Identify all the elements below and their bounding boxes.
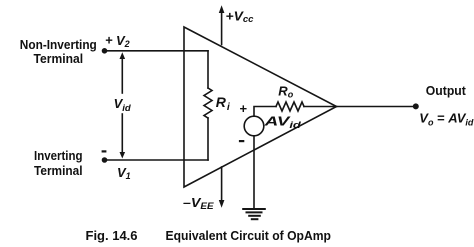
wire R_i bottom lead [207,118,209,160]
resistor Ro [276,102,304,111]
wire -Vee lead [221,167,223,200]
arrowhead Vid up [120,52,126,59]
svg-text:+: + [105,32,113,47]
resistor Ri [204,88,212,118]
node output [413,103,419,109]
arrowhead Vid down [120,152,126,159]
dependent source AVid circle [244,116,264,136]
wire source bottom to ground [253,136,255,209]
wire R_i top lead [207,51,209,88]
op-amp U1 triangle [184,27,337,187]
svg-text:Non-Inverting: Non-Inverting [20,37,97,52]
svg-text:Ri: Ri [216,94,231,113]
svg-text:Output: Output [426,83,467,98]
wire non-inverting input [105,50,209,52]
wire output [337,106,416,108]
svg-text:–VEE: –VEE [183,195,215,211]
svg-text:Terminal: Terminal [34,163,83,178]
wire +Vcc lead [221,11,223,45]
svg-text:V1: V1 [117,165,131,181]
svg-text:Terminal: Terminal [34,51,84,66]
svg-text:Ro: Ro [278,83,293,99]
Vid measurement line upper [121,59,123,93]
wire source top stub [254,107,276,117]
node non-inverting terminal [102,48,108,54]
svg-text:Equivalent Circuit of OpAmp: Equivalent Circuit of OpAmp [166,228,332,243]
arrowhead -Vee [219,200,225,208]
svg-text:Fig. 14.6: Fig. 14.6 [86,228,138,243]
svg-text:AVid: AVid [263,113,301,130]
arrowhead +Vcc [219,5,225,13]
wire inverting input [105,159,209,161]
svg-text:+: + [240,101,248,116]
Vid measurement line lower [121,114,123,153]
label minus inverting [102,150,107,152]
svg-text:Vo = AVid: Vo = AVid [419,111,474,128]
wire Ro to apex [304,106,337,108]
svg-text:+Vcc: +Vcc [226,8,254,24]
node inverting terminal [102,157,108,163]
svg-text:V2: V2 [116,33,130,49]
label minus source [239,140,244,142]
ground symbol [242,209,266,219]
svg-text:Vid: Vid [114,96,131,114]
svg-text:Inverting: Inverting [34,148,83,163]
